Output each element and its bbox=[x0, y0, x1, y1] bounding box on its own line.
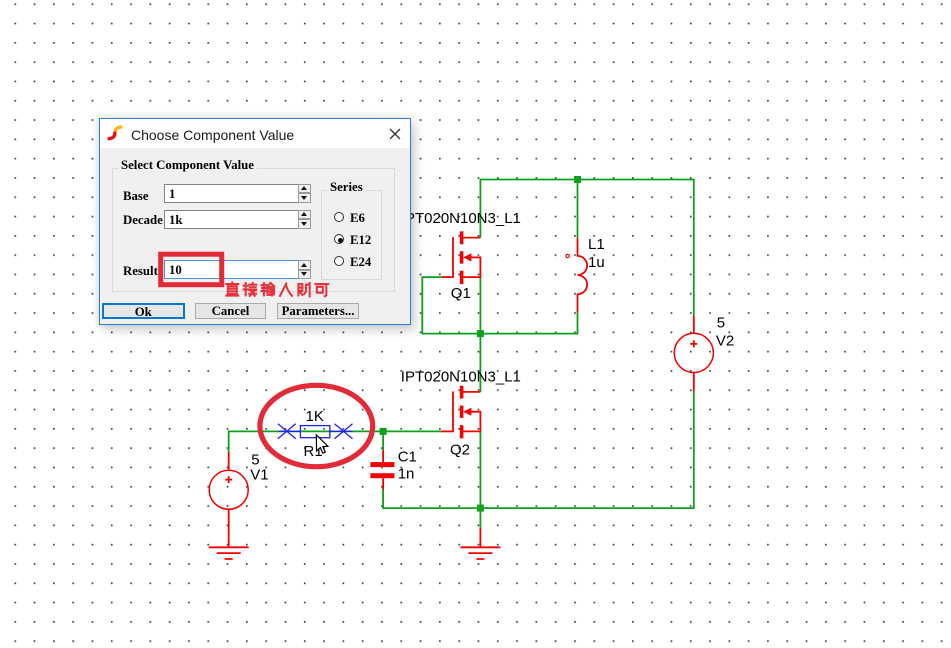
svg-text:R1: R1 bbox=[304, 443, 323, 460]
svg-text:V2: V2 bbox=[716, 332, 734, 349]
svg-text:1n: 1n bbox=[398, 465, 415, 482]
svg-text:V1: V1 bbox=[250, 466, 268, 483]
svg-text:IPT020N10N3_L1: IPT020N10N3_L1 bbox=[401, 369, 521, 386]
svg-text:1K: 1K bbox=[306, 408, 324, 425]
svg-text:Q2: Q2 bbox=[450, 442, 470, 459]
svg-text:Q1: Q1 bbox=[451, 285, 471, 302]
svg-text:5: 5 bbox=[717, 315, 725, 332]
svg-text:IPT020N10N3_L1: IPT020N10N3_L1 bbox=[401, 210, 521, 227]
svg-text:C1: C1 bbox=[398, 449, 417, 466]
svg-text:1u: 1u bbox=[588, 254, 605, 271]
svg-text:L1: L1 bbox=[588, 236, 605, 253]
